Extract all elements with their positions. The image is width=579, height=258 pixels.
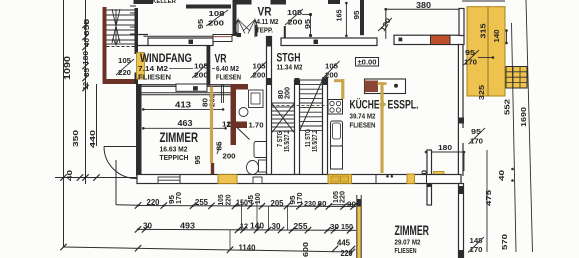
svg-text:475: 475: [484, 189, 493, 206]
svg-text:205: 205: [271, 199, 285, 208]
svg-text:180: 180: [81, 51, 90, 65]
svg-text:165: 165: [335, 10, 344, 22]
annex top wall cap: [134, 0, 154, 4]
svg-text:220: 220: [147, 198, 161, 207]
column in wall mid: [314, 40, 319, 45]
svg-text:200: 200: [285, 87, 292, 99]
svg-text:FLIESEN: FLIESEN: [216, 73, 241, 82]
stair dashed walk line: [272, 105, 328, 107]
window b: [253, 177, 262, 184]
svg-text:ZIMMER: ZIMMER: [160, 129, 199, 145]
column on east wall: [458, 118, 464, 124]
entry step lines: [115, 160, 117, 205]
windfang south wall: [137, 84, 236, 86]
svg-text:552: 552: [503, 99, 512, 115]
svg-text:95: 95: [471, 127, 481, 136]
wall top-right vertical: [360, 0, 364, 35]
svg-text:40: 40: [497, 170, 506, 181]
west wall stub: [357, 199, 361, 207]
stair annex bottom wall: [103, 79, 136, 84]
wc basin circle: [239, 108, 248, 117]
tan highlighted wall C: [210, 87, 213, 164]
entry door leaf: [104, 146, 137, 148]
door jamb lines 80/200: [221, 84, 223, 103]
top wall band b: [271, 0, 287, 5]
svg-text:1090: 1090: [63, 55, 72, 80]
svg-text:95: 95: [196, 19, 205, 29]
svg-text:11 STG: 11 STG: [305, 129, 312, 147]
door swing diagonal: [237, 127, 250, 140]
svg-text:200: 200: [253, 71, 266, 80]
dim row1 line: [138, 206, 356, 207]
wall WINDFANG/VR divider: [207, 46, 211, 86]
right dim line 552: [512, 23, 517, 252]
building right wall: [459, 9, 464, 36]
svg-text:30: 30: [272, 222, 282, 231]
top wall band e: [328, 0, 340, 4]
bath tub: [254, 142, 270, 158]
svg-text:30: 30: [330, 222, 339, 231]
svg-text:30: 30: [143, 222, 153, 231]
room divider ESSPL/ZIMMER: [427, 150, 432, 205]
svg-text:FLIESEN: FLIESEN: [350, 121, 376, 130]
svg-text:FLIESEN: FLIESEN: [395, 246, 417, 255]
dim 475 line: [486, 150, 488, 252]
svg-text:95: 95: [303, 19, 312, 29]
svg-text:255: 255: [294, 222, 309, 231]
corridor south wall band mid: [281, 38, 377, 46]
svg-text:45: 45: [248, 195, 255, 204]
svg-text:170: 170: [297, 192, 304, 204]
svg-text:15.5/27.2: 15.5/27.2: [312, 130, 319, 152]
wall segment with column below windfang: [176, 84, 207, 91]
svg-text:80: 80: [318, 199, 327, 208]
svg-text:413: 413: [175, 101, 192, 110]
row1 ticks: [135, 202, 141, 208]
dim 380 line: [386, 8, 461, 10]
stair flight A diagonals: [272, 103, 295, 133]
level marker box: [356, 58, 379, 67]
left extension line y177: [55, 177, 137, 179]
svg-text:600: 600: [301, 242, 310, 257]
svg-text:220: 220: [226, 194, 233, 205]
yellow door zimmer south: [218, 175, 237, 184]
svg-text:570: 570: [500, 234, 509, 250]
zimmer north wall double line: [142, 92, 236, 94]
wall VR west: [233, 0, 237, 36]
stairwell wall bar 3: [323, 78, 328, 175]
wc fixtures sink: [249, 90, 264, 108]
svg-text:100: 100: [255, 193, 262, 204]
yellow double door kueche south: [328, 175, 352, 184]
building right wall lower: [457, 45, 459, 177]
row3 vertical at 230: [229, 230, 231, 250]
svg-text:KÜCHE: KÜCHE: [350, 99, 380, 112]
svg-text:12: 12: [222, 120, 231, 129]
dim 180 right: [426, 151, 464, 153]
svg-text:220: 220: [341, 249, 353, 258]
svg-text:95: 95: [169, 195, 176, 204]
stair flight B diagonal: [300, 80, 323, 131]
svg-text:ESSPL.: ESSPL.: [388, 98, 419, 112]
stair annex left wall: [103, 7, 107, 84]
svg-text:105: 105: [218, 194, 225, 205]
stairwell wall bar 2: [295, 80, 300, 175]
dim row3 line: [64, 247, 353, 252]
svg-text:140: 140: [492, 30, 501, 43]
stair treads: [107, 9, 135, 11]
door jamb right: [284, 26, 286, 38]
kitchen unit lower: [331, 146, 343, 169]
svg-text:105: 105: [287, 8, 302, 17]
stairwell wall bar 1: [267, 37, 272, 175]
corridor south wall band east: [394, 35, 464, 44]
wall divider: [179, 175, 181, 184]
svg-text:39.74 M2: 39.74 M2: [350, 112, 376, 121]
main west wall: [136, 84, 142, 176]
tan line B: [380, 83, 383, 173]
svg-text:493: 493: [180, 222, 196, 231]
svg-text:15.5/27.2: 15.5/27.2: [284, 130, 291, 152]
wc south wall maroon: [231, 122, 248, 129]
left dimension line inner: [85, 0, 87, 184]
svg-text:255: 255: [195, 198, 209, 207]
top-left wall corner: [137, 18, 149, 46]
svg-text:150: 150: [236, 199, 248, 208]
stair annex right wall upper: [135, 8, 139, 54]
dim line 165: [345, 3, 347, 37]
svg-text:150: 150: [341, 222, 353, 231]
wall divider east: [375, 175, 377, 184]
kitchen counter north: [365, 79, 406, 94]
svg-text:655: 655: [82, 18, 91, 36]
wall foot: [237, 33, 242, 37]
terrace yellow: [467, 7, 505, 96]
south facade wall band: [137, 175, 461, 184]
svg-text:200: 200: [194, 71, 208, 80]
svg-text:200: 200: [288, 18, 303, 27]
exterior line below annex: [96, 84, 98, 146]
orange radiator block: [431, 35, 451, 44]
corridor south wall band west: [148, 38, 213, 46]
exterior stair grid yellow: [506, 67, 527, 89]
small yellow door esspl south: [407, 174, 415, 184]
tan cross: [380, 101, 386, 108]
tan line A: [341, 79, 344, 99]
arrow 95/170: [478, 57, 493, 59]
svg-text:170: 170: [176, 192, 183, 204]
stair run arrows: [112, 9, 120, 44]
yellow door marker windfang west: [137, 53, 145, 80]
svg-text:7 STG: 7 STG: [277, 131, 284, 147]
wc west wall maroon: [231, 84, 237, 145]
terrace top line: [462, 0, 505, 2]
dim row2 line: [138, 229, 356, 230]
door pivot dots: [386, 175, 389, 178]
window 108/200 sill: [213, 35, 232, 42]
top wall band d: [186, 5, 231, 9]
column in wall: [189, 40, 194, 45]
svg-text:TEPPICH: TEPPICH: [160, 153, 189, 162]
upper corridor line: [144, 35, 214, 37]
row2 vertical extensions: [241, 201, 243, 230]
svg-text:315: 315: [479, 23, 488, 39]
dim line stgh top: [310, 15, 312, 37]
stair dashed line: [107, 46, 135, 48]
svg-text:180: 180: [438, 143, 452, 152]
toilet ellipse: [247, 161, 259, 175]
left dimension line outer: [63, 0, 65, 247]
column in wall east: [399, 38, 403, 42]
svg-text:445: 445: [337, 239, 351, 248]
door swing arcs VR: [236, 20, 238, 37]
svg-text:440: 440: [88, 130, 97, 148]
fridge: [331, 121, 343, 146]
svg-text:1690: 1690: [519, 107, 528, 127]
left ticks: [82, 22, 88, 28]
svg-text:±0.00: ±0.00: [358, 58, 377, 67]
dim extension line left of zimmer west wall: [330, 204, 357, 206]
svg-text:95: 95: [195, 155, 202, 164]
dim 413 line: [143, 108, 223, 110]
svg-text:95: 95: [354, 10, 361, 19]
svg-text:ZIMMER: ZIMMER: [395, 222, 430, 238]
terrace inner line: [487, 7, 489, 96]
svg-text:200: 200: [223, 154, 236, 161]
yellow terrace-door ESSPL east wall: [434, 172, 445, 184]
svg-text:FLIESEN: FLIESEN: [138, 73, 171, 82]
svg-text:108: 108: [209, 9, 225, 18]
dim connector windfang: [169, 68, 193, 70]
svg-text:95: 95: [290, 195, 297, 204]
svg-text:85: 85: [82, 67, 91, 77]
svg-text:463: 463: [178, 119, 194, 128]
svg-text:40: 40: [65, 170, 74, 181]
svg-text:1140: 1140: [239, 244, 257, 253]
right dim line 1690: [526, 0, 533, 252]
svg-text:1.70: 1.70: [249, 121, 264, 130]
zimmer2907 east wall: [459, 184, 464, 258]
top wall band a: [237, 0, 252, 5]
window a: [158, 177, 180, 184]
stove: [328, 100, 343, 115]
svg-text:140: 140: [250, 222, 265, 231]
svg-text:230: 230: [304, 199, 316, 208]
dim 463 line: [143, 127, 225, 129]
entry door swing arc: [104, 147, 137, 179]
row2 ticks: [135, 226, 141, 232]
svg-text:90: 90: [347, 200, 356, 209]
svg-text:KELLER: KELLER: [152, 0, 176, 5]
svg-text:40: 40: [82, 38, 91, 47]
svg-text:220: 220: [340, 191, 347, 203]
svg-text:380: 380: [416, 1, 432, 10]
svg-text:105: 105: [118, 58, 131, 65]
stair annex right wall lower: [135, 73, 139, 85]
stair flight A treads: [272, 102, 295, 104]
svg-text:TEPP.: TEPP.: [256, 26, 273, 35]
svg-text:12: 12: [240, 222, 248, 231]
stair flight B treads: [300, 79, 323, 81]
svg-text:350: 350: [71, 130, 80, 147]
svg-text:80: 80: [203, 98, 210, 107]
svg-text:325: 325: [477, 84, 486, 100]
svg-text:11.34 M2: 11.34 M2: [277, 63, 303, 72]
zimmer2907 west wall yellow: [357, 207, 361, 258]
svg-text:12: 12: [81, 82, 90, 90]
door jamb left: [255, 25, 257, 37]
top-left page edge ticks: [130, 5, 136, 7]
wc door top bar maroon: [231, 84, 249, 90]
